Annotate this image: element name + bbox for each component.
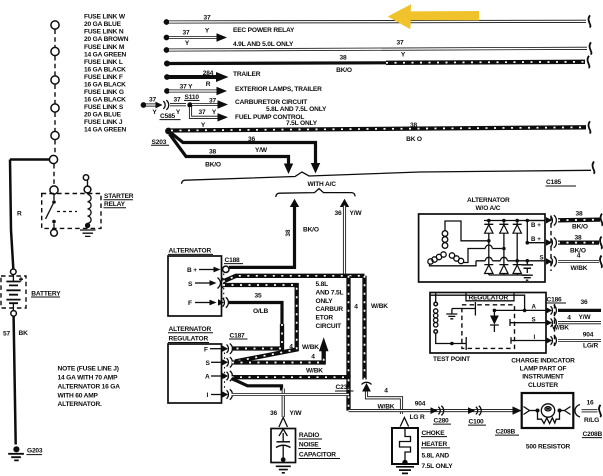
svg-text:C280: C280 [434,417,450,424]
alternator regulator label [168,326,213,343]
connector C208B right [582,431,603,438]
svg-text:WITH A/C: WITH A/C [308,181,337,188]
regulator label frame [466,293,514,302]
svg-text:FUSE LINK S: FUSE LINK S [84,104,124,111]
svg-text:ONLY: ONLY [316,298,334,305]
svg-text:WITH 60 AMP: WITH 60 AMP [58,392,99,399]
svg-text:EEC POWER RELAY: EEC POWER RELAY [233,27,295,34]
svg-text:7.5L ONLY: 7.5L ONLY [422,463,454,470]
svg-text:C187: C187 [230,332,246,339]
svg-text:BK/O: BK/O [336,67,352,74]
wire 37 Y row 1 [164,15,591,35]
500 resistor element [538,413,560,424]
svg-text:CHARGE INDICATOR: CHARGE INDICATOR [511,358,575,365]
svg-text:4: 4 [311,354,315,361]
svg-text:BK/O: BK/O [205,162,221,169]
svg-text:W/BK: W/BK [371,303,388,310]
alternator label [168,248,213,255]
svg-text:FUSE LINK W: FUSE LINK W [84,14,126,21]
ground G203 [8,446,43,460]
label carburetor circuit 5.8L 7.5L [316,281,344,330]
svg-text:20 GA BLUE: 20 GA BLUE [84,112,122,119]
wire 904 LG/R bottom run to cluster [349,401,522,421]
wire 38 BK/O from S203 (lower) [170,134,294,174]
connector boundary dashes C188 [223,274,225,300]
svg-text:CARBUR: CARBUR [316,306,344,313]
svg-text:5.8L AND: 5.8L AND [422,452,450,459]
wire 4 W/BK alternator S upper branch [223,276,365,282]
svg-text:ALTERNATOR: ALTERNATOR [169,326,212,333]
diode D4 bottom [484,241,493,275]
svg-text:16 GA BLACK: 16 GA BLACK [84,97,126,104]
svg-text:C100: C100 [469,418,485,425]
svg-text:W/BK: W/BK [302,344,319,351]
wire 37 Y carburetor row with C585 [141,97,157,108]
wire 37 Y arrow row 2 [164,29,227,47]
alternator pin B+ [187,266,229,274]
svg-text:F: F [188,300,192,307]
starter relay label [104,193,134,208]
capacitor internal [522,259,534,273]
wire 38 BK/O B+1 out [558,210,602,230]
regulator pin S line [510,316,546,326]
svg-text:4: 4 [567,314,571,321]
cluster right lead [558,407,571,415]
svg-text:LG/R: LG/R [583,342,598,349]
wire 35 O/LB alternator F to regulator F [228,292,282,348]
alternator pin S [188,278,225,289]
svg-text:A: A [205,374,210,381]
svg-text:37: 37 [149,97,156,104]
svg-text:284: 284 [203,70,214,77]
svg-text:38: 38 [410,122,417,129]
note text fuse line J [58,366,121,409]
svg-text:NOTE (FUSE LINE J): NOTE (FUSE LINE J) [58,366,119,373]
svg-text:36: 36 [581,299,588,306]
svg-text:S: S [540,255,544,262]
wire 4 W/BK regulator S with up arrow [232,337,329,374]
regulator inner dashed case [462,305,515,349]
svg-text:Y/W: Y/W [255,147,268,154]
radio noise capacitor case [271,429,296,463]
svg-text:38: 38 [576,210,583,217]
svg-text:C230: C230 [336,384,352,391]
wire left vertical to battery [10,160,13,269]
svg-text:36: 36 [248,136,255,143]
wire 38 BK/O row 4 [164,55,589,74]
svg-text:AND 7.5L: AND 7.5L [316,289,344,296]
svg-text:FUSE LINK J: FUSE LINK J [84,119,123,126]
svg-text:W/BK: W/BK [306,367,323,374]
svg-text:16 GA BLACK: 16 GA BLACK [84,66,126,73]
regulator internal ground [446,309,457,319]
svg-text:BK/O: BK/O [303,227,319,234]
wire 904 LG/R I out [558,332,601,350]
svg-text:37 Y: 37 Y [180,84,194,91]
starter relay coil [84,181,91,224]
svg-text:R/LG: R/LG [584,417,599,424]
wire 16 R/LG cluster out [575,400,601,425]
svg-text:CHOKE: CHOKE [422,430,446,437]
connector brace C185 (WITH A/C bracket) [182,162,595,189]
regulator pin S [206,357,233,367]
starter relay actuation link (dashed) [57,211,77,213]
svg-text:16 GA BLACK: 16 GA BLACK [84,81,126,88]
svg-text:BK/O: BK/O [572,223,588,230]
alternator W/O A/C case [419,214,545,282]
svg-text:LAMP PART OF: LAMP PART OF [520,366,567,373]
svg-text:37: 37 [199,109,206,116]
svg-text:ALTERNATOR 16 GA: ALTERNATOR 16 GA [58,383,121,390]
svg-text:HEATER: HEATER [422,441,448,448]
svg-text:37: 37 [174,97,181,104]
regulator internal contact 1 [452,302,476,316]
starter relay coil terminal [83,175,88,180]
wire 37 Y fuel pump branch from S110 [191,107,229,129]
svg-text:14 GA GREEN: 14 GA GREEN [84,127,127,134]
svg-text:ETOR: ETOR [316,315,334,322]
diode D2 top [499,221,508,251]
svg-text:7.5L ONLY: 7.5L ONLY [286,120,318,127]
internal ground [522,275,533,280]
svg-text:904: 904 [415,401,426,408]
rectifier top bus [484,219,545,223]
svg-text:ALTERNATOR: ALTERNATOR [467,197,510,204]
wire 36 Y/W regulator A branch (hatched to bottom run) [232,377,349,410]
svg-text:BK: BK [19,330,29,337]
svg-text:FUSE LINK G: FUSE LINK G [84,89,124,96]
starter relay ground [80,223,96,237]
svg-text:C186: C186 [547,296,563,303]
svg-text:O/LB: O/LB [253,308,268,315]
svg-text:TRAILER: TRAILER [233,71,261,78]
svg-text:ALTERNATOR.: ALTERNATOR. [58,401,103,408]
wire regulator A thick branch to radio capacitor [232,379,282,391]
svg-text:LG R: LG R [410,414,425,421]
svg-text:14 GA GREEN: 14 GA GREEN [84,51,127,58]
svg-text:F: F [204,346,208,353]
yellow arrow marker [388,4,480,29]
wire 37 Y R arrow row 6 [164,81,227,95]
alternator pin B+ 1 [527,215,556,229]
svg-text:CLUSTER: CLUSTER [528,382,558,389]
regulator A connector [546,305,556,315]
starter relay dashed case [42,194,101,229]
svg-text:5.8L AND 7.5L ONLY: 5.8L AND 7.5L ONLY [266,106,327,113]
choke heater labels [421,430,453,470]
svg-text:RADIO: RADIO [299,432,319,439]
svg-text:38: 38 [575,234,582,241]
stator phase 3 bus with hops [476,257,545,261]
svg-text:Y/W: Y/W [290,410,303,417]
wire 4 W/BK S out [558,253,602,272]
stator winding phase 2 [428,252,476,266]
wire 38 BK/O from S203 (hatched, to C185) [171,121,590,143]
svg-text:BK O: BK O [406,136,422,143]
svg-text:4: 4 [289,344,293,351]
connector C230 [335,382,372,391]
wire 284 trailer arrow row 5 [164,70,228,82]
svg-text:Y/W: Y/W [350,210,363,217]
svg-text:ALTERNATOR: ALTERNATOR [169,248,212,255]
svg-text:I: I [534,334,536,341]
charge indicator lamp [541,404,554,417]
stator winding phase 1 [442,221,487,248]
svg-text:FUSE LINK N: FUSE LINK N [84,29,124,36]
svg-text:A: A [532,304,537,311]
regulator pin I [207,389,233,399]
connector C188 [224,257,243,264]
svg-text:S: S [532,316,536,323]
svg-text:38: 38 [285,229,292,236]
regulator internal coil [434,293,452,344]
regulator pin F [204,344,232,354]
svg-text:REGULATOR: REGULATOR [169,336,209,343]
wire 38 BK/O to alternator B+ [229,199,319,268]
svg-text:C585: C585 [160,113,176,120]
svg-text:38: 38 [209,149,216,156]
regulator S connector [546,318,556,328]
alternator pin F [188,297,228,307]
wire 4 W/BK vertical to C230 [354,276,388,380]
wire battery feed (horizontal from chain) [10,158,50,161]
choke heater ground [396,460,414,474]
svg-text:4: 4 [577,253,581,260]
diode D6 bottom [513,261,522,275]
fuse link chain (dashed wire with terminals) [49,21,59,194]
starter relay switch [46,194,58,236]
svg-text:36: 36 [335,210,342,217]
svg-text:S203: S203 [152,139,167,146]
svg-text:CAPACITOR: CAPACITOR [299,452,336,459]
radio noise capacitor element [276,429,291,462]
svg-text:37: 37 [183,29,190,36]
svg-text:FUSE LINK M: FUSE LINK M [84,44,125,51]
svg-text:B +: B + [187,267,197,274]
wire 4 W/BK C230 to choke heater [367,388,402,415]
svg-text:4: 4 [354,304,358,311]
svg-text:W/BK: W/BK [552,325,569,332]
charge indicator label [511,358,575,389]
svg-text:4: 4 [384,388,388,395]
svg-text:20 GA BROWN: 20 GA BROWN [84,36,129,43]
wire 36 Y/W from S203 [171,133,321,174]
diode D3 top [513,221,522,263]
alternator pin B+ 2 [526,221,557,248]
connector dash line at alternator [550,216,552,272]
regulator I connector [546,335,556,345]
wire 4 W/BK vertical to carburetor circuit [346,276,350,377]
radio noise capacitor ground [276,466,291,473]
wire 37 arrow to carburetor circuit [192,97,228,108]
svg-text:RELAY: RELAY [104,201,126,208]
svg-text:W/BK: W/BK [571,265,588,272]
alternator pin S (right) [540,255,557,267]
regulator internal contact 2 [450,337,466,350]
svg-text:FUSE LINK F: FUSE LINK F [84,74,123,81]
svg-text:4.9L AND 5.0L ONLY: 4.9L AND 5.0L ONLY [233,41,294,48]
brace for A/C wires [276,189,355,197]
regulator internal diode [490,310,499,332]
charge indicator cluster case [522,393,574,428]
svg-text:G203: G203 [27,447,43,454]
svg-text:37: 37 [209,97,216,104]
regulator pin I line [511,334,546,344]
regulator case (W/O A/C) [430,293,546,354]
wire 4 W/BK S out [552,314,601,331]
battery B1 [1,269,61,316]
svg-text:14 GA WITH 70 AMP: 14 GA WITH 70 AMP [58,375,119,382]
wire 57 BK battery to ground [14,316,16,444]
svg-text:5.8L: 5.8L [316,281,329,288]
svg-text:C208B: C208B [496,428,516,435]
svg-text:W/O A/C: W/O A/C [476,205,501,212]
alternator regulator case [168,344,222,403]
svg-text:38: 38 [340,55,347,62]
regulator pin A [205,371,232,381]
fuse link labels [84,14,129,134]
regulator internal top feed [430,295,525,310]
svg-text:EXTERIOR LAMPS, TRAILER: EXTERIOR LAMPS, TRAILER [235,86,322,93]
wire 37 Y row 3 [164,39,592,58]
svg-text:CIRCUIT: CIRCUIT [316,323,342,330]
connector C208B left [495,428,519,435]
choke heater case [392,428,418,464]
radio noise capacitor labels [298,432,340,459]
wire 4 W/BK alternator S lower branch [223,285,319,362]
svg-text:TEST POINT: TEST POINT [433,356,470,363]
splice S203 [151,128,172,146]
svg-text:16: 16 [587,400,594,407]
cluster left lead [524,407,540,415]
connector C585 [152,100,181,120]
svg-text:STARTER: STARTER [104,193,134,200]
svg-text:37: 37 [204,15,211,22]
wire 36 Y/W down to S junction [335,199,363,276]
svg-text:20 GA BLUE: 20 GA BLUE [84,21,122,28]
connector C187 [229,332,248,339]
svg-text:904: 904 [583,332,594,339]
svg-text:FUSE LINK L: FUSE LINK L [84,59,123,66]
svg-text:C188: C188 [225,257,241,264]
connector C280 [431,406,452,424]
wire 36 Y/W to radio noise capacitor [270,389,302,428]
alternator case [168,256,222,316]
svg-text:Y/W: Y/W [579,314,592,321]
connector C186 [546,296,566,303]
svg-text:36: 36 [270,410,277,417]
diode D1 top [484,221,493,243]
splice S110 [184,94,200,108]
svg-text:57: 57 [3,330,10,337]
svg-text:CARBURETOR CIRCUIT: CARBURETOR CIRCUIT [235,99,307,106]
choke heater connector prongs [400,418,408,427]
svg-text:B +: B + [531,236,541,243]
connector C100 [468,406,486,425]
diode D5 bottom [499,249,508,276]
wire C585 to S110 [170,97,186,105]
svg-text:C208B: C208B [583,431,603,438]
svg-text:B +: B + [531,222,541,229]
svg-text:C185: C185 [546,179,562,186]
svg-text:35: 35 [255,292,262,299]
rectifier bottom bus [489,274,528,276]
svg-text:R: R [206,81,211,88]
alternator W/O A/C label [467,197,510,212]
svg-text:BATTERY: BATTERY [31,290,61,297]
svg-text:37: 37 [397,39,404,46]
wire 904 regulator I to C230 [232,393,350,396]
regulator pin A line [493,304,546,313]
svg-text:500 RESISTOR: 500 RESISTOR [526,444,571,451]
connector dash line at regulator [554,304,556,346]
svg-text:INSTRUMENT: INSTRUMENT [522,374,564,381]
connector boundary dashes C187 [224,353,226,392]
wire 36 Y/W A out [558,299,601,321]
choke heater element [400,429,411,462]
svg-text:R: R [17,211,22,218]
wire 38 BK/O B+2 out [558,234,602,254]
svg-text:NOISE: NOISE [299,442,319,449]
stator winding phase 3 [449,245,502,264]
